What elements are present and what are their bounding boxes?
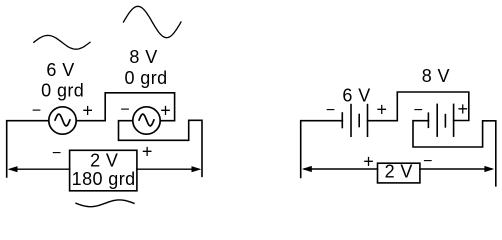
- dimension line left (left circuit): [10, 168, 70, 170]
- svg-text:2 V: 2 V: [385, 162, 413, 182]
- svg-text:0 grd: 0 grd: [124, 68, 167, 88]
- svg-text:+: +: [457, 99, 468, 119]
- svg-text:+: +: [376, 100, 387, 120]
- svg-text:6 V: 6 V: [46, 60, 74, 80]
- waveform sine small above 6V source: [34, 35, 90, 49]
- dimension line right (left circuit): [137, 168, 199, 170]
- svg-text:8 V: 8 V: [129, 47, 157, 67]
- wire from V1 + up over to V2 +: [77, 93, 175, 121]
- dimension line right (right circuit): [420, 168, 492, 170]
- battery B1 6V plate short: [341, 113, 343, 128]
- dimension line left (right circuit): [304, 168, 377, 170]
- sine inside source V2: [139, 114, 154, 126]
- arrowhead right (right circuit): [484, 166, 494, 172]
- svg-text:+: +: [160, 100, 171, 120]
- svg-text:−: −: [414, 102, 423, 119]
- svg-text:+: +: [82, 101, 93, 121]
- battery B2 8V plate short: [427, 113, 429, 127]
- arrowhead right (left circuit): [192, 166, 202, 172]
- battery B2 8V plate long: [436, 104, 438, 136]
- waveform sine large above 8V source: [124, 6, 182, 37]
- battery B1 6V plate short middle: [358, 115, 360, 127]
- svg-text:+: +: [363, 152, 374, 172]
- svg-text:180 grd: 180 grd: [72, 169, 136, 189]
- battery B1 6V plate long right: [367, 105, 369, 137]
- svg-text:−: −: [120, 101, 129, 118]
- svg-text:−: −: [326, 102, 335, 119]
- svg-text:0 grd: 0 grd: [41, 80, 84, 100]
- svg-text:+: +: [142, 141, 153, 161]
- svg-text:−: −: [32, 102, 41, 119]
- arrowhead left (right circuit): [302, 166, 312, 172]
- wire left from source V1 to left rail, down: [7, 121, 49, 177]
- wire from B1 + up over to B2 +: [368, 92, 469, 121]
- svg-text:−: −: [423, 153, 432, 170]
- AC source V1 circle: [49, 107, 76, 134]
- battery B2 8V plate short middle: [444, 115, 446, 127]
- wire left rail right circuit: [301, 121, 343, 178]
- sine inside source V1: [55, 114, 70, 126]
- battery B1 6V plate long: [350, 105, 352, 137]
- wire from B2 - looping to right rail: [413, 121, 496, 186]
- waveform sine inverted below box: [76, 200, 134, 207]
- wire from V2 - looping to right rail: [119, 120, 203, 176]
- svg-text:−: −: [52, 145, 61, 162]
- battery B2 8V plate long right: [453, 104, 455, 136]
- svg-text:2 V: 2 V: [90, 151, 118, 171]
- box 2V 180grd: [70, 150, 137, 191]
- AC source V2 circle: [133, 107, 160, 134]
- arrowhead left (left circuit): [8, 166, 18, 172]
- svg-text:6 V: 6 V: [342, 86, 370, 106]
- svg-text:8 V: 8 V: [422, 66, 450, 86]
- box 2V (right circuit): [378, 163, 420, 183]
